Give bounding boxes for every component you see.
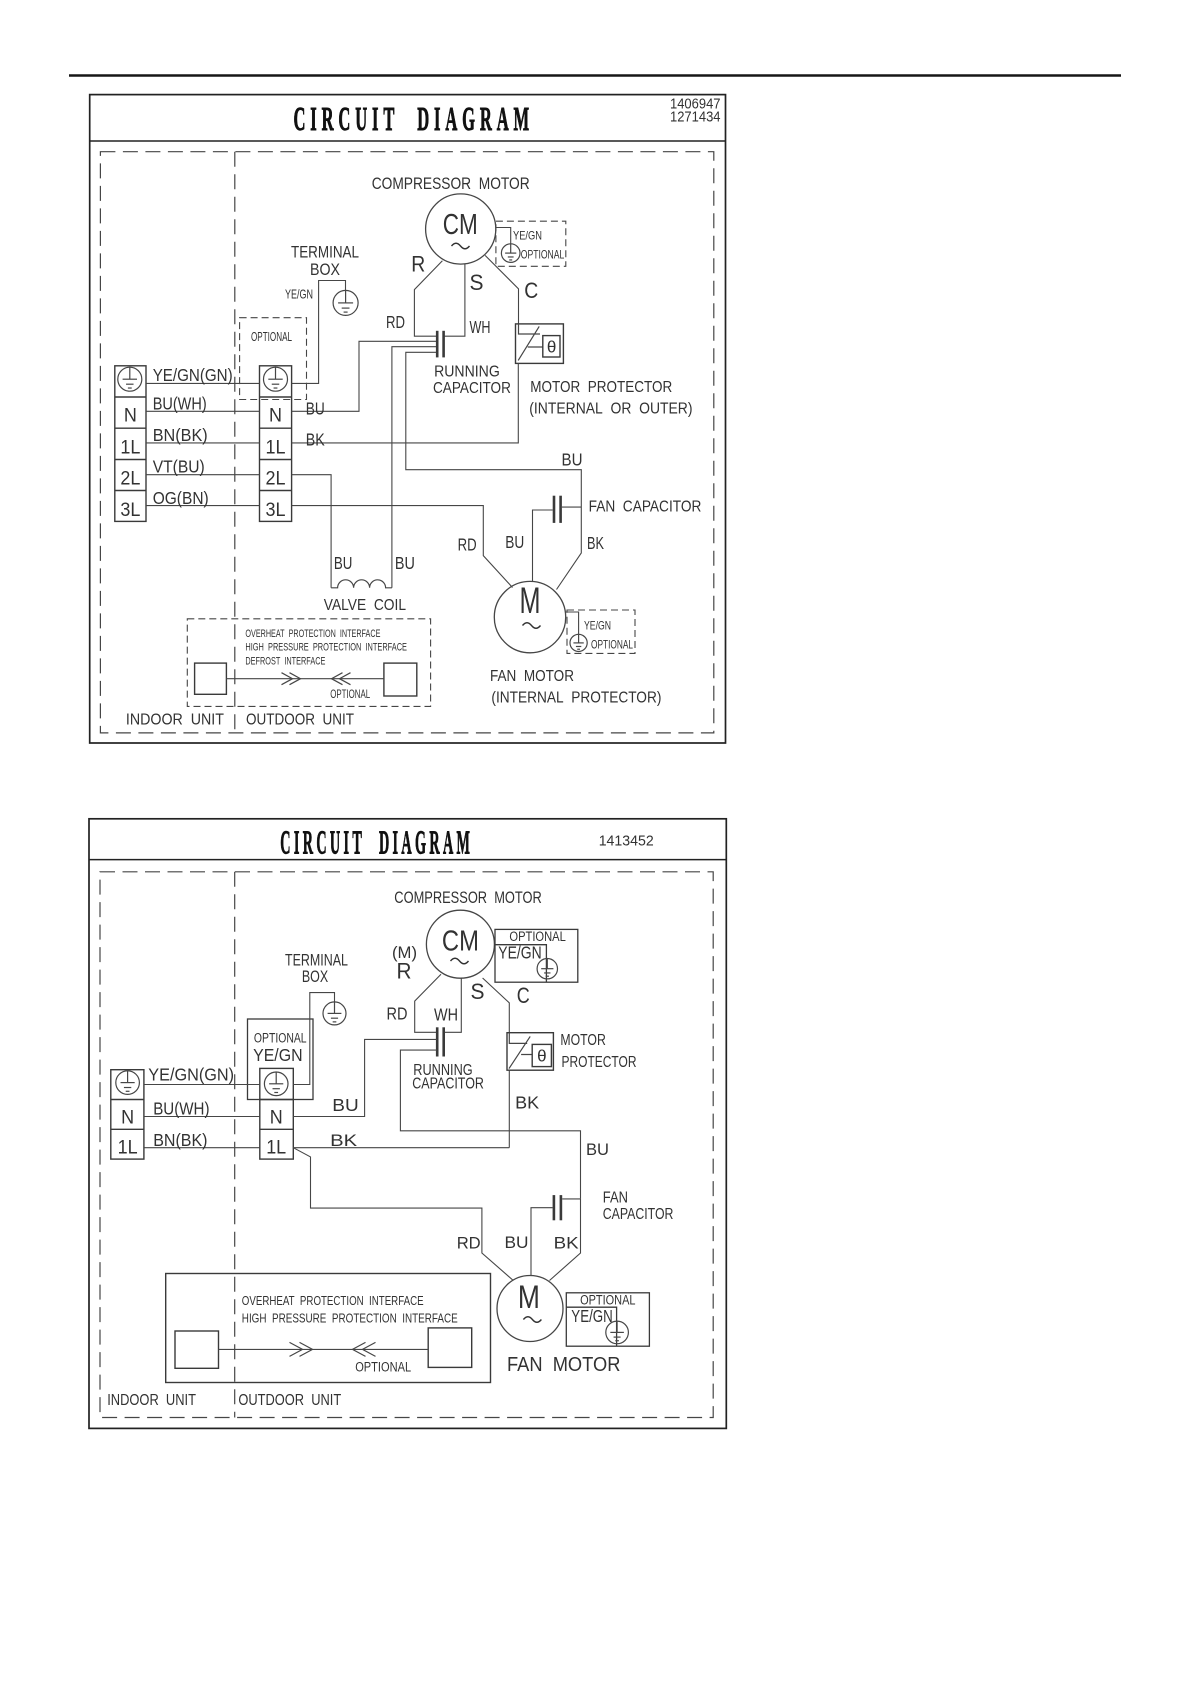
- svg-text:BU: BU: [332, 1095, 358, 1115]
- wire N(BU) to running capacitor (diagram 2): [293, 1039, 437, 1116]
- interface connector square (indoor): [195, 663, 227, 694]
- svg-text:BU: BU: [586, 1140, 609, 1159]
- wire fan motor to optional ground: [565, 612, 578, 634]
- svg-text:S: S: [470, 270, 484, 295]
- interface plug chevrons right (diagram 2): [290, 1342, 313, 1356]
- fan capacitor right plate: [559, 496, 562, 523]
- svg-text:OVERHEAT PROTECTION INTERFAC: OVERHEAT PROTECTION INTERFACE: [242, 1293, 424, 1308]
- wire motor protector to 1L BK (diagram 2): [508, 1070, 510, 1148]
- svg-text:3L: 3L: [266, 500, 286, 521]
- svg-text:RD: RD: [457, 1234, 481, 1253]
- interface box (diagram 2): [166, 1274, 491, 1383]
- ground symbol (terminal box): [333, 290, 358, 315]
- wire fan capacitor left lead to fan motor BU (diagram 2): [531, 1208, 553, 1276]
- wire 1L(BK) to motor protector (diagram 2): [293, 1147, 509, 1149]
- ground symbol (fan motor, diagram 2): [606, 1321, 629, 1344]
- wire 1L jog to fan motor RD (diagram 2): [293, 1148, 513, 1281]
- svg-text:HIGH PRESSURE PROTECTION IN: HIGH PRESSURE PROTECTION INTERFACE: [245, 642, 407, 654]
- valve coil inductor: [331, 580, 392, 588]
- svg-text:BK: BK: [330, 1131, 358, 1150]
- svg-text:M: M: [518, 1279, 540, 1315]
- svg-text:WH: WH: [434, 1005, 458, 1025]
- svg-text:OPTIONAL: OPTIONAL: [521, 248, 565, 262]
- motor protector box: [516, 324, 564, 364]
- CM tilde: [452, 243, 470, 249]
- svg-text:2L: 2L: [120, 469, 140, 490]
- OPTIONAL box (fan motor ground, diagram 2): [566, 1293, 649, 1346]
- svg-text:YE/GN(GN): YE/GN(GN): [153, 365, 233, 385]
- wire BN(BK) row TB1-TB2: [146, 442, 260, 444]
- wire TB4 ground to terminal-box ground (diagram 2): [293, 993, 334, 1085]
- running capacitor right plate: [442, 331, 445, 358]
- wire CM to optional ground: [496, 228, 511, 244]
- svg-text:OPTIONAL: OPTIONAL: [251, 329, 292, 344]
- svg-text:CIRCUIT DIAGRAM: CIRCUIT DIAGRAM: [294, 101, 535, 138]
- svg-text:N: N: [270, 1108, 283, 1129]
- OPTIONAL box (compressor ground, diagram 2): [495, 929, 578, 982]
- svg-text:FAN MOTOR: FAN MOTOR: [507, 1354, 620, 1376]
- terminal block TB3 (indoor, diagram 2) outline: [111, 1070, 144, 1159]
- terminal block TB1 (indoor) outline: [115, 366, 146, 522]
- svg-text:OPTIONAL: OPTIONAL: [254, 1031, 307, 1046]
- svg-text:OUTDOOR UNIT: OUTDOOR UNIT: [246, 712, 354, 729]
- diagram 1 inner dashed boundary: [100, 152, 713, 733]
- compressor motor CM circle: [426, 194, 496, 264]
- wire YE/GN(GN) row (diagram 2): [144, 1084, 260, 1086]
- svg-text:RUNNING: RUNNING: [434, 363, 500, 380]
- wire R terminal to running capacitor: [414, 261, 442, 336]
- ground symbol (compressor, diagram 2): [537, 959, 557, 979]
- svg-text:TERMINAL: TERMINAL: [291, 243, 359, 262]
- svg-text:CM: CM: [443, 209, 478, 241]
- svg-text:FAN MOTOR: FAN MOTOR: [490, 668, 574, 685]
- svg-text:(INTERNAL OR OUTER): (INTERNAL OR OUTER): [529, 401, 692, 418]
- svg-text:R: R: [397, 959, 412, 984]
- svg-text:1271434: 1271434: [670, 110, 721, 126]
- svg-text:OVERHEAT PROTECTION INTERFAC: OVERHEAT PROTECTION INTERFACE: [245, 628, 380, 640]
- svg-text:θ: θ: [537, 1047, 546, 1066]
- svg-text:1L: 1L: [266, 437, 286, 458]
- svg-text:VALVE COIL: VALVE COIL: [324, 597, 407, 614]
- svg-text:CAPACITOR: CAPACITOR: [603, 1206, 674, 1223]
- svg-text:BK: BK: [587, 533, 604, 553]
- motor protector internal contact (diagram 2): [509, 1033, 532, 1069]
- fan motor M circle: [494, 581, 565, 652]
- svg-text:MOTOR PROTECTOR: MOTOR PROTECTOR: [530, 379, 672, 396]
- svg-text:CAPACITOR: CAPACITOR: [412, 1075, 484, 1092]
- interface link wire: [226, 678, 384, 680]
- top horizontal rule: [69, 74, 1121, 77]
- wire C terminal to motor protector: [485, 255, 518, 324]
- dashed OPTIONAL box (compressor ground): [496, 221, 566, 266]
- svg-text:BK: BK: [515, 1093, 539, 1113]
- dashed OPTIONAL box (fan motor ground): [567, 610, 635, 653]
- svg-text:S: S: [471, 979, 485, 1004]
- TB3 cell dividers: [111, 1100, 144, 1130]
- svg-text:2L: 2L: [266, 469, 286, 490]
- svg-text:N: N: [121, 1108, 134, 1129]
- svg-text:1413452: 1413452: [599, 833, 654, 850]
- svg-text:CM: CM: [442, 926, 479, 958]
- svg-text:BU: BU: [505, 1233, 529, 1252]
- svg-text:YE/GN: YE/GN: [513, 229, 542, 243]
- svg-text:OPTIONAL: OPTIONAL: [355, 1360, 411, 1375]
- svg-text:BU(WH): BU(WH): [153, 394, 207, 414]
- svg-text:BU: BU: [334, 553, 353, 573]
- TB4 cell dividers: [260, 1100, 294, 1130]
- wire valve coil right to running capacitor: [392, 347, 436, 588]
- diagram 1 indoor/outdoor dashed separator: [234, 152, 236, 733]
- svg-text:PROTECTOR: PROTECTOR: [562, 1054, 637, 1071]
- fan motor M circle (diagram 2): [497, 1276, 563, 1342]
- svg-text:M: M: [520, 580, 541, 621]
- svg-text:C: C: [517, 983, 530, 1008]
- motor protector theta box: [543, 336, 560, 357]
- terminal block TB2 (outdoor) outline: [260, 366, 292, 522]
- svg-text:N: N: [124, 406, 137, 427]
- OPTIONAL box around TB4 ground (diagram 2): [248, 1019, 314, 1100]
- running capacitor left plate: [436, 331, 439, 358]
- wire BU(WH) row (diagram 2): [144, 1116, 260, 1118]
- svg-text:YE/GN: YE/GN: [498, 942, 541, 962]
- svg-text:BK: BK: [306, 430, 325, 450]
- svg-text:R: R: [411, 252, 425, 277]
- wire fan capacitor right lead (diagram 2): [562, 1198, 580, 1200]
- interface connector square indoor (diagram 2): [175, 1331, 219, 1368]
- svg-text:COMPRESSOR MOTOR: COMPRESSOR MOTOR: [372, 174, 530, 193]
- svg-text:CIRCUIT DIAGRAM: CIRCUIT DIAGRAM: [280, 825, 473, 862]
- svg-text:INDOOR UNIT: INDOOR UNIT: [107, 1392, 196, 1409]
- running capacitor left plate (diagram 2): [436, 1027, 439, 1056]
- wire 3L to fan motor RD: [292, 506, 513, 588]
- fan optional inner divider (diagram 2): [566, 1307, 616, 1346]
- wire running capacitor to fan capacitor (BU): [406, 352, 582, 506]
- svg-text:OUTDOOR UNIT: OUTDOOR UNIT: [238, 1392, 341, 1409]
- svg-text:YE/GN(GN): YE/GN(GN): [148, 1064, 234, 1084]
- svg-text:BU: BU: [505, 532, 524, 552]
- TB1 ground terminal symbol: [118, 367, 142, 391]
- TB2 cell dividers: [260, 397, 292, 491]
- wire fan capacitor to fan motor BK: [557, 506, 582, 590]
- diagram 2 indoor/outdoor dashed separator: [234, 872, 236, 1418]
- svg-text:VT(BU): VT(BU): [153, 457, 205, 477]
- diagram 1 title band line: [90, 140, 726, 142]
- interface plug chevrons left: [332, 673, 351, 685]
- diagram 2 title band line: [89, 859, 726, 861]
- interface plug chevrons right: [282, 673, 301, 685]
- interface link wire (diagram 2): [219, 1348, 429, 1350]
- svg-text:BU: BU: [306, 399, 325, 419]
- svg-text:BN(BK): BN(BK): [153, 425, 208, 445]
- wire C to motor protector (diagram 2): [483, 978, 510, 1033]
- svg-text:YE/GN: YE/GN: [584, 619, 611, 633]
- svg-text:θ: θ: [547, 337, 556, 356]
- motor protector box (diagram 2): [507, 1033, 553, 1071]
- svg-text:OG(BN): OG(BN): [153, 488, 209, 508]
- interface connector square outdoor (diagram 2): [428, 1328, 472, 1368]
- fan capacitor right plate (diagram 2): [560, 1195, 563, 1220]
- svg-text:YE/GN: YE/GN: [285, 287, 313, 302]
- svg-text:C: C: [524, 278, 538, 303]
- TB1 cell dividers: [115, 397, 146, 491]
- svg-text:1L: 1L: [266, 1138, 286, 1159]
- fan motor tilde (diagram 2): [523, 1317, 541, 1323]
- wire VT(BU) row TB1-TB2: [146, 474, 260, 476]
- wire 2L to valve coil: [292, 475, 332, 588]
- wire fan capacitor right lead: [562, 506, 581, 508]
- svg-text:BOX: BOX: [310, 260, 340, 279]
- svg-text:N: N: [269, 406, 282, 427]
- wire running capacitor to fan capacitor BU (diagram 2): [400, 1050, 580, 1199]
- motor protector theta box (diagram 2): [532, 1044, 551, 1066]
- svg-text:BU: BU: [395, 553, 415, 573]
- wire R to running capacitor (diagram 2): [415, 974, 441, 1032]
- interface connector square (outdoor): [384, 663, 417, 696]
- svg-text:RD: RD: [458, 535, 477, 555]
- svg-text:BU(WH): BU(WH): [153, 1099, 209, 1119]
- svg-text:COMPRESSOR MOTOR: COMPRESSOR MOTOR: [394, 888, 542, 907]
- svg-text:1L: 1L: [120, 437, 140, 458]
- svg-text:BOX: BOX: [302, 967, 328, 986]
- compressor optional inner divider: [495, 945, 546, 983]
- svg-text:WH: WH: [470, 317, 491, 337]
- wire 1L(BK) TB2 to motor protector: [292, 363, 519, 443]
- wire TB2 ground to terminal-box ground: [292, 281, 346, 384]
- fan capacitor left plate (diagram 2): [553, 1195, 556, 1220]
- svg-text:OPTIONAL: OPTIONAL: [591, 637, 633, 651]
- interface plug chevrons left (diagram 2): [353, 1342, 376, 1356]
- TB4 ground terminal symbol: [264, 1072, 288, 1096]
- svg-text:CAPACITOR: CAPACITOR: [433, 380, 511, 397]
- svg-text:INDOOR UNIT: INDOOR UNIT: [126, 712, 224, 729]
- wire fan capacitor left lead to fan motor BU: [533, 510, 553, 582]
- svg-text:(INTERNAL PROTECTOR): (INTERNAL PROTECTOR): [491, 690, 661, 707]
- TB2 ground terminal symbol: [264, 367, 288, 391]
- svg-text:YE/GN: YE/GN: [571, 1306, 613, 1326]
- ground symbol (compressor optional): [501, 244, 520, 263]
- svg-text:MOTOR: MOTOR: [560, 1032, 605, 1049]
- svg-text:FAN CAPACITOR: FAN CAPACITOR: [589, 499, 702, 516]
- svg-text:OPTIONAL: OPTIONAL: [330, 687, 370, 701]
- TB3 ground terminal symbol: [116, 1071, 140, 1095]
- svg-text:HIGH PRESSURE PROTECTION IN: HIGH PRESSURE PROTECTION INTERFACE: [242, 1311, 458, 1326]
- wire S to running capacitor (diagram 2): [445, 978, 462, 1032]
- running capacitor right plate (diagram 2): [442, 1027, 445, 1056]
- wire YE/GN(GN) row TB1-TB2: [146, 382, 260, 384]
- svg-text:RD: RD: [386, 312, 405, 332]
- svg-text:BN(BK): BN(BK): [153, 1130, 207, 1150]
- diagram 2 inner dashed boundary: [100, 872, 713, 1418]
- compressor motor CM circle (diagram 2): [426, 910, 494, 978]
- wire BN(BK) row (diagram 2): [144, 1147, 260, 1149]
- svg-text:BU: BU: [562, 450, 583, 470]
- CM tilde (diagram 2): [451, 958, 469, 964]
- wire N(BU) TB2 to running capacitor: [292, 341, 436, 411]
- wire OG(BN) row TB1-TB2: [146, 505, 260, 507]
- diagram 2 outer border: [89, 819, 726, 1429]
- svg-text:FAN: FAN: [603, 1190, 628, 1207]
- interface dashed box (diagram 1): [187, 619, 430, 707]
- wire fan capacitor to fan motor BK (diagram 2): [550, 1199, 581, 1281]
- wire BU(WH) row TB1-TB2: [146, 410, 260, 412]
- terminal block TB4 (outdoor, diagram 2) outline: [260, 1068, 294, 1159]
- fan capacitor left plate: [553, 496, 556, 523]
- ground symbol (fan motor optional): [570, 634, 587, 651]
- ground symbol (terminal box, diagram 2): [323, 1002, 346, 1025]
- svg-text:3L: 3L: [120, 500, 140, 521]
- wire S terminal to running capacitor: [445, 264, 465, 337]
- motor protector internal contact: [518, 324, 543, 361]
- dashed OPTIONAL box around TB2 ground: [240, 318, 307, 400]
- svg-text:RD: RD: [387, 1004, 408, 1024]
- diagram 1 outer border: [90, 95, 726, 743]
- svg-text:1L: 1L: [118, 1138, 138, 1159]
- fan motor tilde: [523, 623, 541, 629]
- svg-text:BK: BK: [554, 1234, 580, 1253]
- svg-text:DEFROST INTERFACE: DEFROST INTERFACE: [245, 656, 325, 668]
- svg-text:YE/GN: YE/GN: [253, 1045, 303, 1065]
